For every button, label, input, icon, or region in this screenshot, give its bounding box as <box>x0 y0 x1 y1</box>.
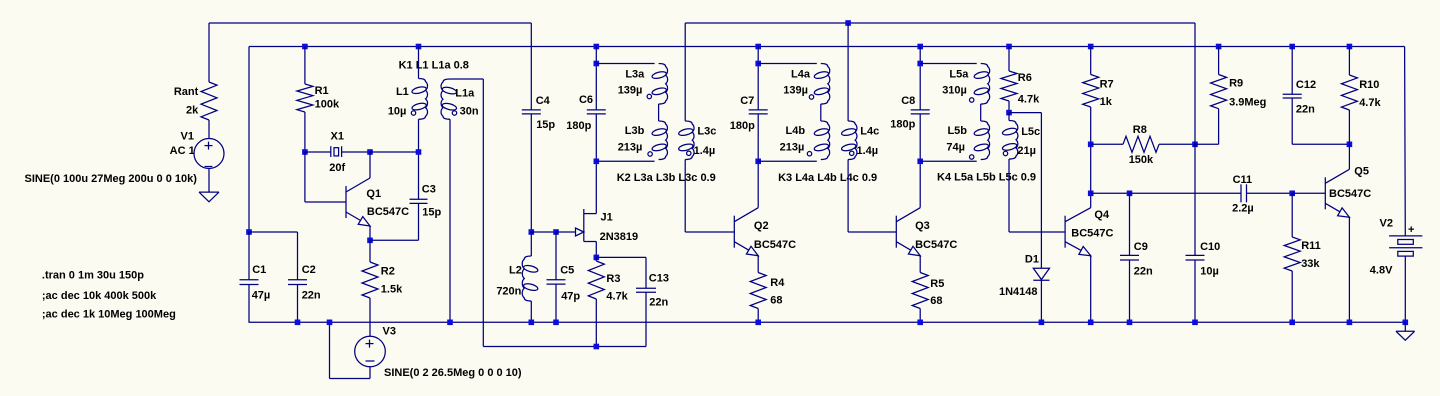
wire L4c bottom <box>847 160 849 233</box>
wire C9 bottom lead <box>1129 260 1131 322</box>
svg-text:180p: 180p <box>730 120 755 132</box>
wire C12 top lead <box>1291 47 1293 95</box>
svg-text:L2: L2 <box>509 265 522 277</box>
wire C5 bottom lead <box>555 284 557 322</box>
svg-text:BC547C: BC547C <box>367 206 409 218</box>
wire C11 right lead <box>1247 192 1293 194</box>
wire L5b bottom <box>920 160 977 162</box>
inductor L1 <box>419 79 428 120</box>
capacitor C9 <box>1120 254 1139 256</box>
inductor L4a <box>821 64 830 105</box>
svg-text:L3c: L3c <box>697 125 716 137</box>
svg-text:22n: 22n <box>1296 103 1315 115</box>
wire R9 top lead <box>1218 47 1220 75</box>
resistor R4 <box>750 273 766 309</box>
capacitor C7 <box>749 109 768 111</box>
junction C2 ground <box>295 320 301 326</box>
inductor L5c <box>1009 121 1018 160</box>
svg-text:X1: X1 <box>331 131 344 143</box>
wire R7 bottom lead <box>1090 107 1092 144</box>
resistor R9 <box>1211 75 1227 109</box>
inductor L1a <box>441 79 450 119</box>
wire L3c top <box>684 23 686 121</box>
svg-text:R2: R2 <box>381 266 395 278</box>
svg-text:R10: R10 <box>1359 79 1379 91</box>
transistor Q4 <box>1064 216 1066 248</box>
wire Q1 collector up <box>369 152 371 178</box>
svg-text:22n: 22n <box>1134 266 1153 278</box>
svg-text:2k: 2k <box>186 105 199 117</box>
resistor R7 <box>1083 75 1099 108</box>
junction tank3 bottom <box>755 159 761 165</box>
svg-text:V3: V3 <box>383 326 396 338</box>
svg-text:K4 L5a L5b L5c 0.9: K4 L5a L5b L5c 0.9 <box>937 172 1036 184</box>
svg-text:L4b: L4b <box>786 125 806 137</box>
resistor R2 <box>362 262 378 298</box>
transistor Q3 <box>895 216 897 248</box>
wire C1 top lead <box>248 232 250 280</box>
junction R4 ground <box>755 320 761 326</box>
junction R10 vcc <box>1347 44 1353 50</box>
wire feedback column down <box>482 79 484 347</box>
svg-text:213µ: 213µ <box>780 142 805 154</box>
svg-text:D1: D1 <box>1025 253 1039 265</box>
junction R11 top node <box>1289 191 1295 197</box>
junction L3a tap <box>594 61 600 67</box>
resistor R10 <box>1341 75 1357 110</box>
wire L3a L3b link <box>658 104 660 121</box>
diode D1 <box>1033 268 1049 279</box>
wire V2 ground lead <box>1404 322 1406 331</box>
wire Q3 base <box>848 231 896 233</box>
svg-text:139µ: 139µ <box>783 84 808 96</box>
wire to Q5 base <box>1292 192 1325 194</box>
svg-text:C10: C10 <box>1200 241 1220 253</box>
junction R5 ground <box>917 320 923 326</box>
inductor L3b <box>659 121 668 160</box>
wire R11 bottom lead <box>1291 271 1293 322</box>
wire collector tap to C9 <box>1091 192 1130 194</box>
junction C5 ground <box>553 320 559 326</box>
jfet J1 <box>583 209 585 242</box>
wire D1 bottom lead <box>1040 280 1042 322</box>
wire V3 loop up to ground rail <box>329 322 331 378</box>
svg-text:K2 L3a L3b L3c 0.9: K2 L3a L3b L3c 0.9 <box>617 172 716 184</box>
svg-text:+: + <box>1408 224 1414 236</box>
svg-text:BC547C: BC547C <box>1071 228 1113 240</box>
wire Q4 emitter down <box>1090 256 1092 323</box>
svg-text:15p: 15p <box>536 119 555 131</box>
junction R6 L5c node <box>1006 110 1012 116</box>
junction L1 bottom node <box>416 149 422 155</box>
svg-text:R6: R6 <box>1018 72 1032 84</box>
wire R8 left lead <box>1091 143 1123 145</box>
wire L5a L5b link <box>980 104 982 121</box>
svg-text:1.4µ: 1.4µ <box>694 145 716 157</box>
wire C12 to Q5 collector node <box>1292 143 1349 145</box>
capacitor C8 <box>911 109 930 111</box>
wire L2 bottom lead <box>530 301 532 322</box>
wire R6 bottom lead <box>1008 101 1010 113</box>
wire V1 top to Rant <box>208 23 210 82</box>
svg-text:74µ: 74µ <box>946 142 965 154</box>
svg-text:1.4µ: 1.4µ <box>857 145 879 157</box>
source V1 <box>194 139 224 169</box>
wire R11 top lead <box>1291 193 1293 237</box>
svg-text:310µ: 310µ <box>942 84 967 96</box>
svg-text:L1a: L1a <box>455 88 475 100</box>
wire L1 top lead <box>418 47 420 79</box>
svg-text:C9: C9 <box>1134 241 1148 253</box>
junction R7 vcc <box>1088 44 1094 50</box>
svg-text:33k: 33k <box>1301 258 1320 270</box>
wire to L3a top <box>596 63 654 65</box>
svg-text:.tran 0 1m 30u 150p: .tran 0 1m 30u 150p <box>42 270 144 282</box>
wire Q1 base <box>305 201 346 203</box>
svg-text:;ac dec 1k 10Meg 100Meg: ;ac dec 1k 10Meg 100Meg <box>42 309 176 321</box>
wire C4 bottom lead <box>530 114 532 232</box>
junction C8 vcc <box>917 44 923 50</box>
svg-text:C1: C1 <box>252 264 266 276</box>
svg-text:Q2: Q2 <box>754 220 769 232</box>
junction L4a tap <box>755 61 761 67</box>
wire Q5 emitter down <box>1348 217 1350 322</box>
wire Vcc corner down to C1 node <box>248 47 250 233</box>
junction Q4 emitter ground <box>1088 320 1094 326</box>
svg-text:K3 L4a L4b L4c 0.9: K3 L4a L4b L4c 0.9 <box>778 172 877 184</box>
wire Q1 emitter down <box>369 226 371 240</box>
svg-text:C8: C8 <box>901 95 915 107</box>
wire L5c bottom <box>1008 159 1010 232</box>
junction D1 ground <box>1039 320 1045 326</box>
wire C1 node to C2 <box>249 231 298 233</box>
resistor R1 <box>297 84 313 112</box>
junction Q5 collector node <box>1347 142 1353 148</box>
svg-text:4.8V: 4.8V <box>1370 265 1393 277</box>
svg-text:150k: 150k <box>1129 154 1154 166</box>
wire C1 bottom lead <box>248 285 250 323</box>
wire L5c top lead <box>1008 113 1010 121</box>
wire C3 top lead <box>418 152 420 199</box>
junction R3 bottom <box>594 344 600 350</box>
junction C10 ground <box>1192 320 1198 326</box>
svg-text:R5: R5 <box>930 278 944 290</box>
wire C3 bottom to Q1 emitter <box>370 239 419 241</box>
svg-text:47µ: 47µ <box>252 289 271 301</box>
wire R3 bottom lead <box>595 299 597 347</box>
wire L1a bottom to ground rail <box>449 119 451 322</box>
wire J1 gate <box>556 231 576 233</box>
wire C3 bottom lead <box>418 203 420 240</box>
svg-text:720n: 720n <box>496 286 521 298</box>
svg-text:L4a: L4a <box>791 69 811 81</box>
svg-text:47p: 47p <box>561 290 580 302</box>
wire R4 bottom <box>757 309 759 323</box>
svg-text:10µ: 10µ <box>388 106 407 118</box>
wire C10 bottom lead <box>1194 260 1196 322</box>
wire R2 top lead <box>369 240 371 262</box>
junction C5 top <box>553 229 559 235</box>
junction V3 ground <box>327 320 333 326</box>
svg-text:4.7k: 4.7k <box>606 291 628 303</box>
wire L4c top <box>847 23 849 121</box>
svg-text:100k: 100k <box>315 99 340 111</box>
wire to L5a top <box>920 63 977 65</box>
wire L2 top lead <box>530 232 532 256</box>
svg-text:C12: C12 <box>1296 79 1316 91</box>
svg-text:4.7k: 4.7k <box>1018 93 1040 105</box>
junction C9 top <box>1127 191 1133 197</box>
svg-text:V2: V2 <box>1380 218 1393 230</box>
junction R8 AGC node <box>1192 142 1198 148</box>
wire J1 drain up <box>595 161 597 213</box>
wire R9 bottom lead <box>1218 109 1220 145</box>
svg-text:1N4148: 1N4148 <box>999 286 1038 298</box>
capacitor C6 <box>587 109 606 111</box>
wire L4b bottom <box>758 160 817 162</box>
svg-text:21µ: 21µ <box>1017 145 1036 157</box>
wire Q3 collector up <box>919 161 921 207</box>
wire top antenna rail left segment <box>209 22 531 24</box>
wire V1 to ground <box>208 169 210 193</box>
junction R6 vcc <box>1006 44 1012 50</box>
inductor L3a <box>659 64 668 105</box>
wire L3b bottom <box>596 160 654 162</box>
wire Rant to V1 <box>208 120 210 139</box>
svg-text:R3: R3 <box>606 273 620 285</box>
wire R10 bottom lead <box>1348 110 1350 144</box>
svg-text:2N3819: 2N3819 <box>600 231 639 243</box>
svg-text:BC547C: BC547C <box>1329 188 1371 200</box>
wire L4a L4b link <box>820 104 822 121</box>
transistor Q5 <box>1324 177 1326 209</box>
svg-text:22n: 22n <box>649 296 668 308</box>
junction C12 vcc <box>1289 44 1295 50</box>
junction tank1 node <box>529 229 535 235</box>
wire Q5 collector up <box>1348 144 1350 169</box>
capacitor C10 <box>1186 254 1205 256</box>
source V3 <box>355 336 386 367</box>
junction R9 vcc <box>1216 44 1222 50</box>
wire top rail right segment <box>685 22 1195 24</box>
wire Q2 base <box>685 231 734 233</box>
wire to L4a top <box>758 63 817 65</box>
junction C7 vcc <box>755 44 761 50</box>
wire C9 to C11 <box>1130 192 1242 194</box>
wire C5 top lead <box>555 232 557 280</box>
wire R2 bottom to V3 <box>369 298 371 336</box>
wire L3c bottom <box>684 160 686 233</box>
junction tank4 bottom <box>917 159 923 165</box>
wire supply rail Vcc <box>249 46 1405 48</box>
junction R1 top <box>302 44 308 50</box>
inductor L2 <box>522 256 531 301</box>
wire tank1 node to C5 <box>531 231 556 233</box>
wire V3 bottom lead <box>369 367 371 379</box>
wire C2 bottom lead <box>297 285 299 323</box>
svg-text:C5: C5 <box>560 265 574 277</box>
junction tank2 bottom <box>594 159 600 165</box>
wire Q3 emitter down <box>919 256 921 273</box>
svg-text:R7: R7 <box>1100 78 1114 90</box>
svg-text:139µ: 139µ <box>618 84 643 96</box>
inductor L5b <box>981 121 990 160</box>
wire D1 top column <box>1040 113 1042 269</box>
svg-text:3.9Meg: 3.9Meg <box>1229 96 1266 108</box>
svg-text:213µ: 213µ <box>618 142 643 154</box>
svg-text:R11: R11 <box>1301 240 1321 252</box>
ground at V2 <box>1396 330 1415 332</box>
wire feedback bottom horizontal <box>483 346 646 348</box>
wire R5 bottom <box>919 309 921 323</box>
svg-text:L5c: L5c <box>1021 126 1040 138</box>
svg-text:20f: 20f <box>329 162 345 174</box>
capacitor C4 <box>522 109 541 111</box>
svg-text:68: 68 <box>930 295 942 307</box>
svg-text:Q4: Q4 <box>1094 209 1110 221</box>
inductor L4b <box>821 121 830 160</box>
svg-text:;ac dec 10k 400k 500k: ;ac dec 10k 400k 500k <box>42 290 157 302</box>
capacitor C1 <box>240 279 259 281</box>
svg-text:C13: C13 <box>649 273 669 285</box>
svg-text:15p: 15p <box>422 207 441 219</box>
junction C6 vcc <box>594 44 600 50</box>
junction X1 left node <box>302 149 308 155</box>
battery V2 <box>1389 235 1422 237</box>
wire Q2 emitter down <box>757 256 759 273</box>
svg-text:V1: V1 <box>181 131 194 143</box>
wire R6 top lead <box>1008 47 1010 72</box>
wire R9 to AGC node <box>1195 143 1219 145</box>
inductor L4c <box>848 121 857 160</box>
svg-text:J1: J1 <box>601 212 613 224</box>
resistor R6 <box>1001 71 1017 101</box>
svg-text:22n: 22n <box>302 289 321 301</box>
svg-text:68: 68 <box>770 294 782 306</box>
svg-text:L3a: L3a <box>625 69 645 81</box>
svg-text:AC 1: AC 1 <box>170 145 195 157</box>
svg-text:30n: 30n <box>460 105 479 117</box>
wire Q4 collector up <box>1090 144 1092 207</box>
junction C9 ground <box>1127 320 1133 326</box>
junction L1a ground <box>447 320 453 326</box>
ground at V1 <box>199 191 219 193</box>
resistor R8 <box>1123 136 1159 152</box>
wire V3 bottom horizontal <box>330 378 371 380</box>
wire R3 top lead <box>595 257 597 261</box>
junction C1 node <box>246 229 252 235</box>
capacitor C12 <box>1283 93 1302 95</box>
wire C8 bottom lead <box>919 114 921 161</box>
svg-text:K1 L1 L1a 0.8: K1 L1 L1a 0.8 <box>399 59 469 71</box>
svg-text:R8: R8 <box>1133 124 1147 136</box>
wire C13 bottom lead <box>645 292 647 346</box>
svg-text:180p: 180p <box>890 119 915 131</box>
wire R7 top lead <box>1090 47 1092 75</box>
wire Q2 collector up <box>757 161 759 207</box>
wire L1 bottom lead <box>418 119 420 152</box>
resistor R11 <box>1284 237 1300 271</box>
svg-text:180p: 180p <box>566 120 591 132</box>
svg-text:R4: R4 <box>770 277 785 289</box>
svg-text:R1: R1 <box>315 85 329 97</box>
svg-text:Q1: Q1 <box>366 188 381 200</box>
svg-text:C11: C11 <box>1233 174 1253 186</box>
capacitor C5 <box>547 279 566 281</box>
capacitor C13 <box>636 287 656 289</box>
wire base drop from X1 node <box>304 152 306 202</box>
junction Q1 emitter node <box>367 238 373 244</box>
wire C6 column upper <box>595 47 597 110</box>
crystal X1 <box>330 146 332 157</box>
wire C7 column upper <box>757 47 759 110</box>
svg-text:1.5k: 1.5k <box>381 283 403 295</box>
svg-text:C7: C7 <box>740 95 754 107</box>
inductor L5a <box>981 64 990 105</box>
wire AGC column <box>1194 23 1196 255</box>
junction L1 top <box>416 44 422 50</box>
svg-text:2.2µ: 2.2µ <box>1232 202 1254 214</box>
svg-text:C2: C2 <box>302 264 316 276</box>
wire R8 right lead <box>1159 143 1195 145</box>
resistor Rant <box>201 82 217 120</box>
wire C2 top lead <box>297 232 299 280</box>
wire C6 bottom lead <box>595 114 597 161</box>
svg-text:L5a: L5a <box>949 69 969 81</box>
junction L2 ground <box>529 320 535 326</box>
resistor R5 <box>912 273 928 309</box>
wire V2 top lead <box>1404 47 1407 236</box>
svg-text:L1: L1 <box>396 86 409 98</box>
wire C7 bottom lead <box>757 114 759 161</box>
junction L4c top rail <box>845 20 851 26</box>
svg-text:SINE(0 2 26.5Meg 0 0 0 10): SINE(0 2 26.5Meg 0 0 0 10) <box>384 367 522 379</box>
svg-text:Q5: Q5 <box>1354 166 1369 178</box>
capacitor C2 <box>288 279 307 281</box>
wire L1a top to right <box>450 78 483 80</box>
wire X1 node to L1 <box>370 151 419 153</box>
svg-text:L5b: L5b <box>947 125 967 137</box>
inductor L3c <box>685 121 694 160</box>
svg-text:C3: C3 <box>422 184 436 196</box>
wire C9 top lead <box>1129 193 1131 255</box>
capacitor C11 <box>1240 184 1242 202</box>
wire X1 right lead <box>342 151 370 153</box>
svg-text:Q3: Q3 <box>915 220 930 232</box>
svg-text:1k: 1k <box>1100 96 1113 108</box>
wire source node to C13 <box>596 256 646 258</box>
svg-text:C6: C6 <box>579 94 593 106</box>
capacitor C3 <box>410 198 428 200</box>
svg-text:10µ: 10µ <box>1200 266 1219 278</box>
junction J1 source node <box>594 255 600 261</box>
svg-text:C4: C4 <box>536 95 551 107</box>
svg-text:Rant: Rant <box>174 86 199 98</box>
wire J1 source down <box>595 242 597 258</box>
wire ground rail <box>249 321 1406 323</box>
wire R10 top lead <box>1348 47 1350 76</box>
transistor Q2 <box>733 216 735 248</box>
svg-text:L4c: L4c <box>860 125 879 137</box>
wire C8 column upper <box>919 47 921 110</box>
svg-text:SINE(0 100u 27Meg 200u 0 0 10k: SINE(0 100u 27Meg 200u 0 0 10k) <box>25 173 198 185</box>
svg-text:R9: R9 <box>1229 78 1243 90</box>
junction L5a tap <box>917 61 923 67</box>
wire R6 node to D1 <box>1009 112 1041 114</box>
resistor R3 <box>588 261 604 299</box>
junction X1 right node <box>367 149 373 155</box>
junction V2 ground rail <box>1403 320 1409 326</box>
